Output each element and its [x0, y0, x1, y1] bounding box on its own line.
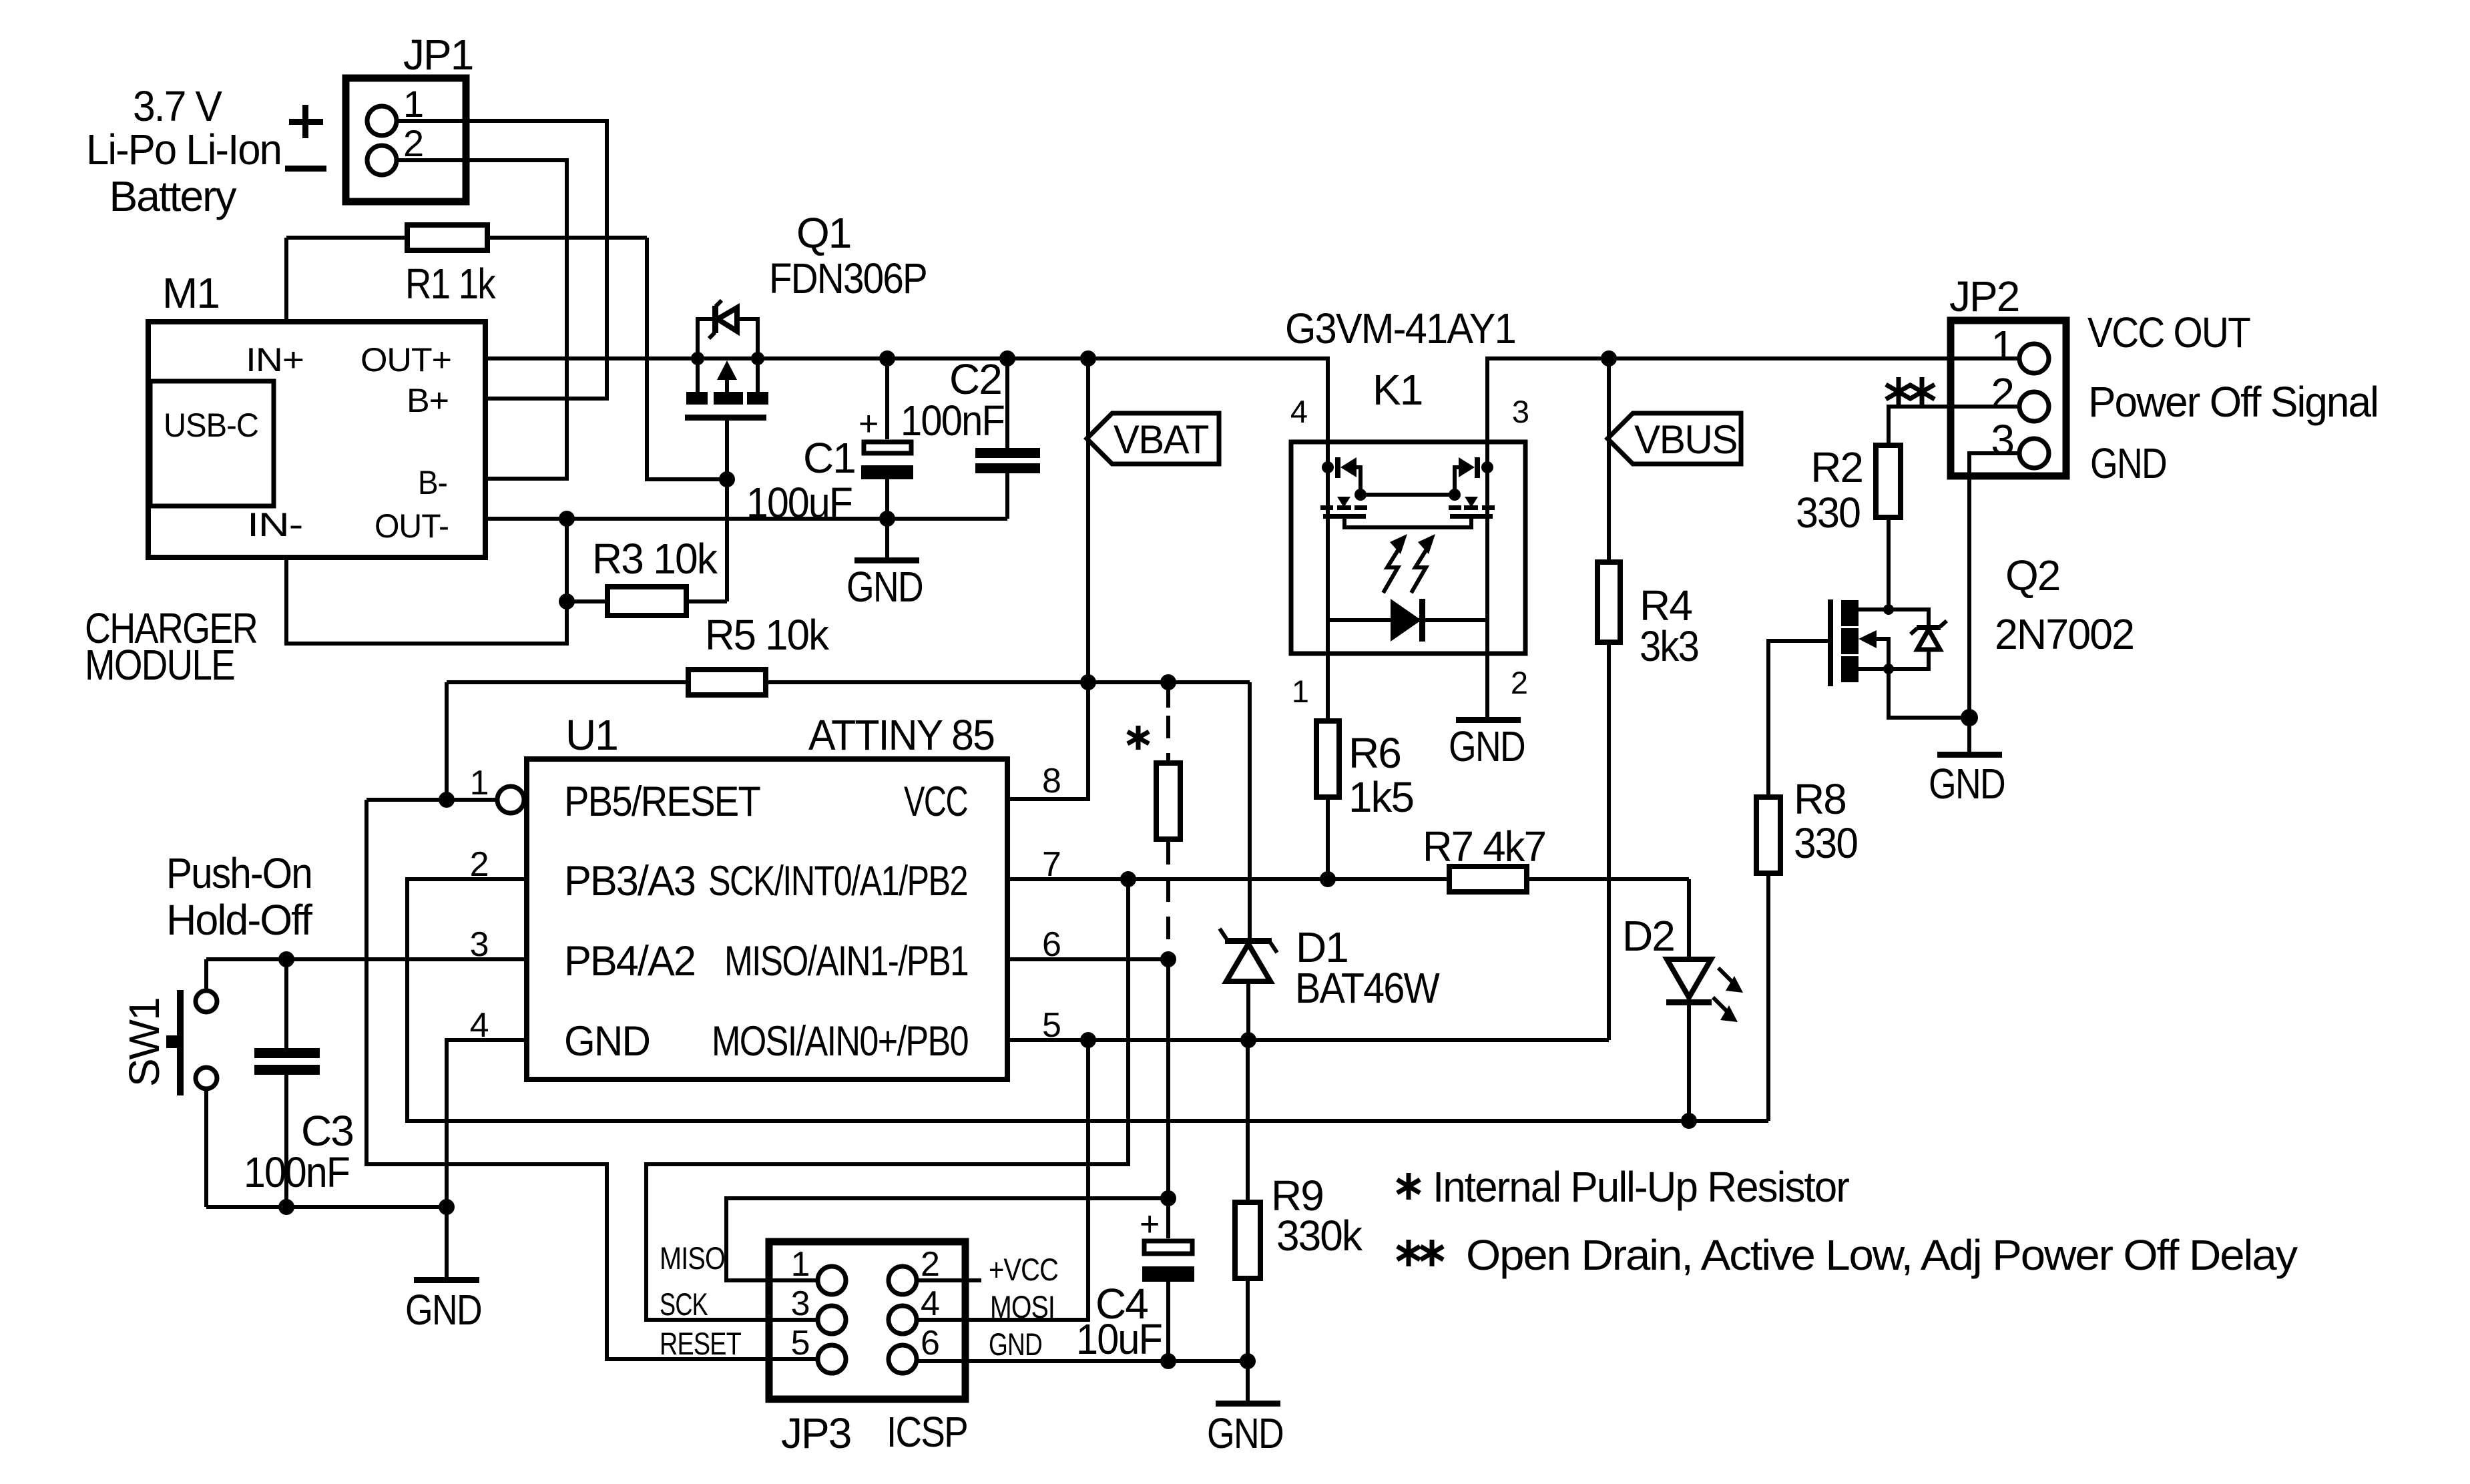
svg-text:4: 4	[1290, 394, 1307, 429]
svg-text:U1: U1	[565, 711, 617, 759]
svg-text:B-: B-	[418, 464, 447, 501]
wire pin4 GND	[447, 1040, 527, 1207]
right pin 3 vertical	[1485, 439, 1489, 656]
svg-text:GND: GND	[564, 1018, 650, 1065]
note text	[1397, 1173, 1420, 1200]
svg-text:4: 4	[921, 1284, 939, 1323]
svg-text:R5 10k: R5 10k	[705, 611, 830, 659]
connector JP2	[1949, 272, 2378, 487]
wire R1 left to M1 top pin	[284, 238, 288, 319]
svg-text:R3 10k: R3 10k	[592, 535, 718, 583]
svg-text:VCC: VCC	[904, 778, 967, 825]
svg-text:Open Drain, Active Low, Adj P: Open Drain, Active Low, Adj Power Off De…	[1466, 1231, 2298, 1279]
svg-text:MISO: MISO	[660, 1240, 725, 1276]
capacitor C4	[1076, 1198, 1194, 1363]
svg-text:GND: GND	[1449, 722, 1525, 770]
svg-text:10uF: 10uF	[1076, 1315, 1162, 1363]
svg-text:GND: GND	[846, 563, 923, 611]
svg-text:R6: R6	[1348, 729, 1401, 777]
transistor Q2	[1828, 551, 2134, 718]
wire JP3 pin2 +VCC stub	[917, 1278, 981, 1282]
wire SW1/C3 ground run	[206, 1205, 447, 1209]
svg-text:RESET: RESET	[660, 1326, 741, 1361]
node R6 bottom	[1320, 871, 1336, 887]
svg-text:JP3: JP3	[781, 1409, 850, 1457]
connector JP3	[660, 1240, 1058, 1457]
node pin1/R5 junction	[439, 792, 455, 808]
node R9 bottom	[1240, 1353, 1256, 1369]
svg-text:R1 1k: R1 1k	[405, 260, 497, 308]
node C2 top on rail	[999, 350, 1015, 366]
gate lead down	[725, 421, 729, 601]
node OUT- junction	[559, 511, 575, 527]
wire pin8 VCC	[1007, 682, 1088, 799]
node Q2 source	[1883, 664, 1894, 674]
wire OUT- / GND run	[488, 517, 1007, 521]
svg-text:SCK/INT0/A1/PB2: SCK/INT0/A1/PB2	[708, 858, 967, 905]
svg-text:B+: B+	[407, 382, 449, 419]
resistor R4	[1597, 358, 1698, 1040]
resistor R1	[286, 225, 647, 308]
svg-text:1: 1	[470, 764, 488, 802]
wire OUT- down to R3	[565, 519, 569, 601]
svg-text:330: 330	[1796, 489, 1860, 537]
svg-text:2N7002: 2N7002	[1995, 610, 2134, 658]
internal pull-up resistor (dashed)	[1128, 682, 1180, 959]
svg-text:GND: GND	[1929, 760, 2005, 808]
svg-text:100nF: 100nF	[244, 1148, 349, 1196]
svg-text:M1: M1	[162, 269, 219, 317]
svg-text:Power Off Signal: Power Off Signal	[2088, 378, 2378, 426]
wire RESET run	[366, 800, 816, 1359]
svg-text:1k5: 1k5	[1348, 773, 1413, 821]
node R1/gate junction	[719, 471, 735, 487]
svg-text:3: 3	[1991, 416, 2013, 464]
wire pin1 RESET	[366, 798, 496, 802]
body diode (zener)	[1917, 625, 1941, 630]
svg-text:OUT+: OUT+	[360, 341, 451, 379]
resistor R5	[447, 611, 1250, 695]
capacitor C3	[244, 959, 353, 1207]
svg-text:8: 8	[1042, 762, 1060, 800]
body arrow	[717, 360, 737, 380]
svg-text:2: 2	[1991, 369, 2013, 417]
wire JP1 pin1 to B+	[397, 121, 607, 399]
ground under C1	[846, 519, 923, 611]
node MISO/C4 junction	[1160, 1190, 1176, 1206]
wire pin5 PB0 net	[1007, 1038, 1609, 1042]
svg-text:K1: K1	[1373, 366, 1422, 414]
node C3 top junction	[278, 951, 294, 967]
wire Q2 gate from R8	[1768, 641, 1828, 794]
svg-text:R8: R8	[1794, 775, 1846, 823]
svg-text:ICSP: ICSP	[887, 1408, 967, 1456]
svg-text:3.7 V: 3.7 V	[133, 82, 222, 130]
wire MISO run	[726, 959, 1168, 1280]
svg-text:JP1: JP1	[403, 31, 473, 79]
ground bottom center	[1207, 1361, 1283, 1457]
node C3 bottom	[278, 1199, 294, 1215]
svg-text:MISO/AIN1-/PB1: MISO/AIN1-/PB1	[724, 938, 968, 985]
ground under JP2	[1929, 718, 2005, 808]
svg-text:R7 4k7: R7 4k7	[1423, 822, 1545, 871]
svg-text:G3VM-41AY1: G3VM-41AY1	[1285, 304, 1515, 352]
gate bar	[685, 415, 766, 421]
svg-text:BAT46W: BAT46W	[1295, 964, 1440, 1012]
contacts	[1841, 600, 1859, 626]
charger module M1	[148, 269, 485, 557]
light arrows	[1383, 546, 1401, 593]
node Q1 source on rail	[691, 352, 704, 365]
svg-text:C1: C1	[803, 434, 855, 482]
svg-text:D2: D2	[1622, 912, 1674, 960]
node VBAT tap on rail	[1080, 350, 1096, 366]
svg-text:IN-: IN-	[247, 506, 302, 543]
wire SCK run	[646, 879, 1128, 1320]
diode D2 LED	[1622, 879, 1743, 1121]
wire pin7 SCK net	[1007, 877, 1447, 881]
svg-text:1: 1	[791, 1245, 809, 1284]
switch SW1	[120, 959, 217, 1207]
node Q2 source / GND junction	[1961, 709, 1978, 726]
svg-text:Q2: Q2	[2005, 551, 2059, 599]
svg-text:Battery: Battery	[109, 172, 237, 220]
svg-text:Push-On: Push-On	[166, 849, 312, 897]
node MOSI tap	[1080, 1032, 1096, 1048]
svg-text:GND: GND	[2090, 439, 2166, 487]
svg-text:VBUS: VBUS	[1634, 417, 1737, 462]
resistor R8	[1756, 775, 1857, 1121]
wire M1 IN- loop	[286, 560, 567, 644]
wire JP3 pin6 GND run	[917, 1359, 1248, 1363]
wire pin3 PB4	[206, 957, 527, 961]
svg-text:SCK: SCK	[660, 1286, 708, 1322]
resistor R3	[567, 535, 727, 615]
battery annotation text	[86, 82, 326, 220]
node C1 top on rail	[879, 350, 895, 366]
right internal diode	[1481, 461, 1493, 473]
wire JP2 pin3 to GND	[1969, 453, 2020, 718]
svg-text:MODULE: MODULE	[85, 641, 234, 689]
node R3 left junction	[559, 593, 575, 609]
body diode loop	[698, 319, 715, 358]
svg-text:330: 330	[1794, 819, 1857, 867]
wire pin6 MISO	[1007, 957, 1168, 961]
left pin 4 vertical	[1326, 439, 1330, 656]
ic U1	[470, 711, 1061, 1079]
node GND junction	[439, 1199, 455, 1215]
wire VBAT tap	[1086, 358, 1090, 682]
wire pin2 PB3 net	[407, 879, 1768, 1121]
wire K1 pin3 to JP2 pin1	[1487, 358, 2020, 439]
svg-text:MOSI/AIN0+/PB0: MOSI/AIN0+/PB0	[712, 1018, 968, 1065]
svg-text:2: 2	[921, 1245, 939, 1284]
wire OUT+ rail	[488, 358, 1328, 439]
resistor R2	[1796, 443, 1901, 609]
wire R5 tap	[445, 682, 449, 800]
capacitor C1	[746, 358, 913, 527]
wire R1 right to Q1 gate	[647, 238, 727, 479]
svg-text:JP2: JP2	[1949, 272, 2019, 320]
node pin6 junction	[1160, 951, 1176, 967]
relay K1	[1285, 304, 1529, 709]
capacitor C2	[901, 355, 1040, 519]
svg-text:VCC OUT: VCC OUT	[2087, 308, 2250, 356]
resistor R7	[1423, 822, 1689, 892]
node C4 bottom	[1160, 1353, 1176, 1369]
right MOSFET	[1465, 497, 1478, 507]
svg-text:330k: 330k	[1276, 1212, 1363, 1260]
label **	[1886, 377, 1935, 407]
svg-text:100nF: 100nF	[901, 397, 1004, 445]
net flag VBAT	[1087, 413, 1219, 464]
node Q2 drain / R2	[1883, 604, 1894, 615]
ground at K1 pin2	[1449, 656, 1525, 770]
node VCC/VBAT junction	[1080, 674, 1096, 690]
node SCK tap	[1120, 871, 1136, 887]
svg-text:100uF: 100uF	[746, 479, 852, 527]
svg-text:PB4/A2: PB4/A2	[564, 938, 695, 985]
svg-text:VBAT: VBAT	[1114, 417, 1209, 462]
gate plate	[1828, 599, 1833, 686]
svg-text:SW1: SW1	[120, 998, 168, 1087]
svg-text:USB-C: USB-C	[164, 407, 258, 444]
node D1/R9 tap	[1240, 1032, 1256, 1048]
diode D1	[1220, 682, 1440, 1040]
svg-text:5: 5	[791, 1324, 809, 1363]
svg-text:ATTINY 85: ATTINY 85	[808, 711, 994, 759]
svg-text:Li-Po Li-Ion: Li-Po Li-Ion	[86, 126, 281, 174]
node Q1 drain on rail	[751, 352, 764, 365]
node C1 bottom	[879, 511, 895, 527]
svg-text:3: 3	[791, 1284, 809, 1323]
source link bar	[1361, 493, 1455, 497]
svg-text:+: +	[858, 405, 878, 443]
svg-text:3k3: 3k3	[1640, 622, 1698, 670]
left MOSFET	[1337, 497, 1350, 507]
node VBUS tap	[1601, 350, 1617, 366]
gate bracket	[1344, 519, 1471, 527]
svg-text:1: 1	[403, 83, 423, 125]
LED	[1328, 618, 1487, 622]
node D2 cathode junction	[1681, 1113, 1697, 1129]
svg-text:2: 2	[403, 122, 423, 164]
node pull-up tap	[1160, 674, 1176, 690]
source wire to GND	[1889, 669, 1969, 718]
svg-text:PB3/A3: PB3/A3	[564, 858, 695, 905]
net flag VBUS	[1608, 413, 1741, 464]
svg-text:+VCC: +VCC	[989, 1252, 1058, 1287]
transistor Q1	[685, 209, 927, 601]
svg-text:+: +	[1140, 1205, 1159, 1244]
svg-text:Internal Pull-Up Resistor: Internal Pull-Up Resistor	[1433, 1163, 1850, 1211]
svg-text:1: 1	[1991, 322, 2013, 370]
svg-text:GND: GND	[1207, 1409, 1283, 1457]
svg-text:1: 1	[1292, 674, 1308, 709]
svg-text:FDN306P: FDN306P	[769, 254, 927, 302]
svg-text:2: 2	[1511, 665, 1527, 700]
body arrow	[1859, 630, 1877, 648]
resistor R9	[1235, 1040, 1363, 1361]
svg-text:R2: R2	[1810, 443, 1863, 491]
svg-text:PB5/RESET: PB5/RESET	[564, 778, 760, 825]
connector JP1	[346, 31, 473, 202]
svg-text:6: 6	[921, 1324, 939, 1363]
left internal diode	[1322, 461, 1334, 473]
svg-text:OUT-: OUT-	[375, 507, 449, 545]
svg-text:3: 3	[1512, 394, 1529, 429]
resistor R6	[1316, 656, 1413, 879]
svg-text:Hold-Off: Hold-Off	[166, 896, 312, 944]
wire JP2 pin2 to R2	[1889, 407, 2020, 443]
svg-text:IN+: IN+	[246, 341, 304, 379]
svg-text:GND: GND	[989, 1326, 1042, 1362]
svg-text:Q1: Q1	[796, 209, 850, 257]
pads	[686, 392, 708, 405]
wire MOSI run	[917, 1040, 1088, 1320]
wire JP1 pin2 to B-	[397, 160, 567, 479]
ground under SW1 area	[405, 1207, 481, 1334]
svg-text:GND: GND	[405, 1286, 481, 1334]
drain wire	[1859, 609, 1929, 627]
